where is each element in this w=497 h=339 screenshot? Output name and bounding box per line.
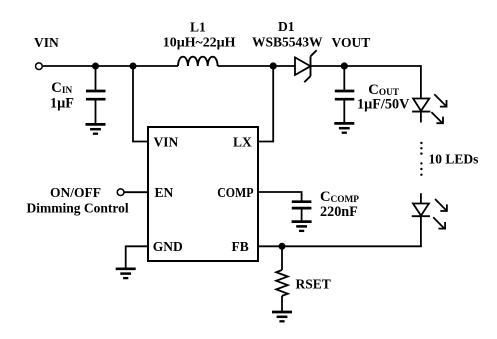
ground (RSET): [272, 312, 292, 321]
wire top rail to VIN pin: [133, 65, 148, 142]
IC U1: [148, 127, 258, 261]
svg-text:RSET: RSET: [296, 277, 331, 292]
wire D1 cathode to LED string: [311, 65, 421, 67]
junction CIN node: [92, 63, 99, 70]
junction VOUT node: [341, 62, 348, 69]
svg-text:10 LEDs: 10 LEDs: [429, 151, 479, 166]
terminal EN (open circle): [117, 189, 124, 196]
svg-text:VOUT: VOUT: [332, 35, 371, 50]
svg-text:LX: LX: [233, 134, 252, 149]
svg-text:L1: L1: [190, 20, 206, 35]
wire top rail to LX pin: [258, 65, 273, 142]
svg-text:VIN: VIN: [34, 35, 59, 50]
terminal VIN (open circle): [36, 63, 43, 70]
svg-text:COMP: COMP: [217, 185, 253, 200]
wire EN terminal to EN pin: [124, 191, 148, 193]
LED1 emission arrows: [431, 94, 446, 123]
LED D-led2: [412, 204, 430, 248]
LED2 emission arrows: [433, 199, 447, 229]
svg-text:220nF: 220nF: [320, 204, 358, 220]
ground (COUT): [334, 123, 354, 132]
ground (CIN): [86, 124, 106, 133]
svg-text:Dimming Control: Dimming Control: [27, 200, 129, 215]
junction LX drop node: [270, 62, 277, 69]
dotted continuation (LED string): [420, 142, 422, 176]
svg-text:1µF/50V: 1µF/50V: [357, 97, 410, 113]
svg-text:VIN: VIN: [154, 134, 179, 149]
svg-text:ON/OFF: ON/OFF: [50, 185, 101, 200]
capacitor CCOMP: [292, 202, 312, 222]
svg-text:10µH~22µH: 10µH~22µH: [163, 36, 236, 51]
LED D-led1: [412, 99, 430, 123]
svg-text:WSB5543W: WSB5543W: [252, 35, 323, 50]
wire COMP pin to CCOMP: [258, 192, 302, 202]
wire VOUT down to LED1: [420, 65, 422, 98]
svg-text:FB: FB: [232, 239, 249, 254]
wire to LED2: [420, 193, 422, 203]
diode D1 (Schottky): [295, 50, 317, 82]
svg-text:1µF: 1µF: [50, 96, 74, 112]
wire L1 to diode D1: [218, 65, 295, 67]
junction VIN-pin drop node: [130, 63, 137, 70]
wire GND pin to ground: [126, 246, 148, 268]
svg-text:D1: D1: [278, 19, 295, 34]
ground (CCOMP): [292, 222, 312, 231]
resistor RSET: [276, 246, 288, 311]
wire LED2 cathode to FB: [258, 245, 422, 247]
svg-text:EN: EN: [155, 185, 174, 200]
ground (GND pin): [116, 269, 136, 278]
capacitor COUT: [335, 66, 355, 123]
svg-text:GND: GND: [153, 239, 183, 254]
capacitor CIN: [86, 66, 106, 124]
junction FB node: [279, 243, 286, 250]
wire VIN terminal to inductor L1: [43, 65, 178, 67]
inductor L1: [178, 57, 218, 66]
